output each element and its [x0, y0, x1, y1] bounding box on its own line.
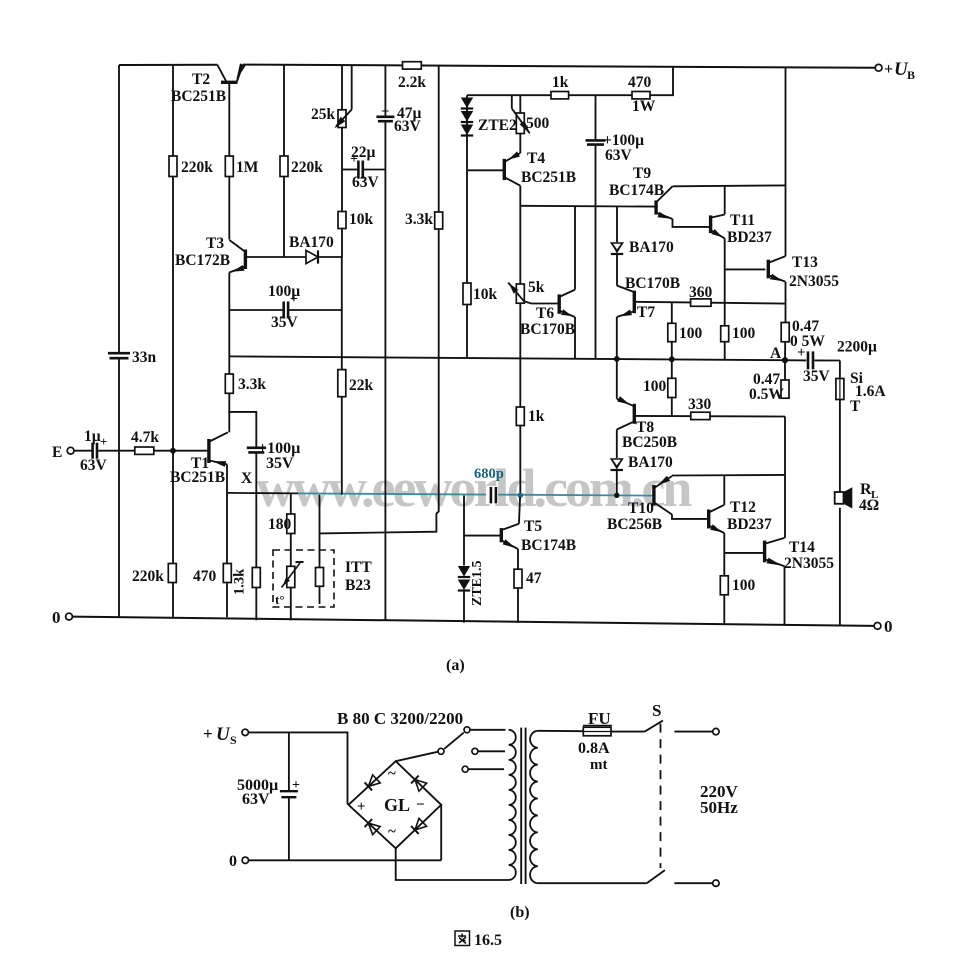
svg-text:A: A: [770, 345, 782, 362]
wire: T1 emitter down to X rail: [226, 464, 228, 493]
junction: 1k mid at X rail: [518, 492, 524, 498]
svg-text:330: 330: [688, 396, 712, 413]
svg-text:100: 100: [643, 378, 667, 395]
ITT B23 dashed module box: [273, 550, 334, 607]
svg-text:63V: 63V: [605, 147, 633, 164]
svg-text:2N3055: 2N3055: [784, 555, 834, 572]
svg-text:100µ: 100µ: [268, 283, 300, 300]
diode chain ZTE1.5: [458, 566, 470, 577]
transistor T13 2N3055: [767, 260, 770, 279]
wire: bottom rail: [72, 617, 874, 626]
svg-text:0: 0: [884, 617, 893, 636]
terminal 0 (bottom right): [874, 623, 881, 630]
svg-text:T12: T12: [730, 499, 756, 516]
resistor 2.2k (in top rail): [403, 62, 422, 69]
transistor T4 BC251B: [503, 159, 506, 180]
wire: psu bottom: [249, 859, 442, 861]
svg-text:3.3k: 3.3k: [405, 211, 433, 228]
junction on input line: [170, 448, 176, 454]
svg-text:BA170: BA170: [629, 239, 674, 256]
transistor T14 2N3055: [763, 541, 766, 563]
transistor T3 BC172B: [244, 250, 247, 270]
svg-text:BA170: BA170: [289, 234, 334, 251]
wire: ITT branch to X rail: [319, 495, 321, 568]
junction: 100 at rail: [669, 356, 675, 362]
capacitor 100u 63V: [595, 95, 597, 140]
wire: bridge right corner down: [440, 805, 442, 861]
resistor 100 (first): [668, 323, 676, 341]
svg-text:1µ: 1µ: [84, 428, 101, 445]
potentiometer 500: [511, 95, 513, 108]
svg-text:500: 500: [526, 115, 550, 132]
svg-text:BD237: BD237: [727, 516, 772, 533]
wire: T9 collector to T11 base: [673, 219, 710, 227]
wire: T12 emitter to T14 base and 100 fourth: [723, 533, 725, 576]
wire: 180 / thermistor branch: [290, 494, 292, 514]
svg-text:T11: T11: [730, 212, 755, 229]
resistor 220k (bottom): [168, 564, 176, 583]
wire: bridge bottom to primary: [396, 848, 509, 880]
svg-text:2.2k: 2.2k: [398, 74, 426, 91]
junction: node A: [782, 357, 788, 363]
bridge rectifier GL: [349, 761, 442, 848]
wire: T10 collector to T12 base: [672, 515, 708, 519]
svg-text:100: 100: [732, 577, 756, 594]
resistor 47: [514, 569, 522, 588]
resistor 470 (emitter): [223, 564, 231, 583]
wire: T10 emitter row: [672, 474, 785, 477]
svg-text:BC172B: BC172B: [175, 252, 230, 269]
svg-text:470: 470: [193, 568, 217, 585]
svg-text:680p: 680p: [474, 466, 504, 482]
capacitor 2200u 35V: [785, 359, 806, 361]
transistor T9 BC174B: [654, 200, 657, 214]
svg-text:T9: T9: [633, 165, 651, 182]
svg-text:0: 0: [229, 853, 237, 870]
wire: T1 collector network: [229, 393, 256, 447]
svg-text:1W: 1W: [632, 98, 656, 115]
svg-text:BC251B: BC251B: [170, 469, 225, 486]
svg-text:BC250B: BC250B: [622, 434, 677, 451]
svg-text:T: T: [850, 398, 861, 415]
terminal E input: [67, 447, 74, 454]
wire: 3.3k top branch with dogleg to X rail: [438, 66, 440, 212]
wire: ZTE2 to 10k second: [466, 170, 468, 283]
junction: BA170 at X rail: [614, 493, 619, 498]
svg-text:BC174B: BC174B: [609, 182, 664, 199]
bridge diode bottom-right: [411, 818, 427, 834]
transistor T12 BD237: [707, 510, 710, 529]
svg-text:33n: 33n: [132, 349, 157, 366]
svg-text:T5: T5: [524, 518, 542, 535]
wire: T8 emitter to BA170 third: [616, 430, 618, 459]
selector switch and taps: [396, 752, 438, 761]
svg-text:~: ~: [388, 824, 396, 840]
wire: T5 collector up to X rail: [519, 497, 520, 524]
switch link dashed: [660, 724, 662, 868]
transformer secondary coil: [530, 731, 538, 883]
svg-text:T6: T6: [536, 305, 554, 322]
wire: secondary top with fuse FU: [538, 730, 584, 732]
svg-text:10k: 10k: [349, 211, 374, 228]
resistor 1.3k: [252, 568, 260, 588]
wire: base line to T1: [154, 450, 208, 452]
resistor 100 (second): [721, 326, 729, 342]
wire: 5k pot chain down to 1k mid: [519, 206, 521, 284]
wire: 1k/470 row: [467, 66, 673, 95]
svg-text:BA170: BA170: [628, 454, 673, 471]
svg-text:220k: 220k: [291, 159, 323, 176]
capacitor 100u 35V (first): [229, 309, 283, 311]
wire: BA170/22k vertical: [341, 257, 343, 370]
svg-text:1k: 1k: [528, 408, 545, 425]
svg-text:0.5W: 0.5W: [749, 386, 784, 403]
resistor 1k (top): [551, 92, 569, 99]
svg-text:1.3k: 1.3k: [232, 568, 248, 595]
wire: T11 emitter down to T13 base and 100 second: [724, 238, 726, 325]
svg-text:−: −: [416, 797, 425, 813]
wire: T5 emitter to 47: [517, 549, 519, 569]
wire: secondary bottom with switch: [538, 882, 647, 884]
transistor T8 BC250B: [633, 404, 636, 424]
svg-text:S: S: [230, 733, 237, 747]
svg-text:S: S: [652, 701, 661, 720]
resistor 360: [691, 299, 711, 306]
terminal +UB: [875, 64, 882, 71]
svg-text:T10: T10: [628, 500, 654, 517]
svg-text:22k: 22k: [349, 377, 374, 394]
thermistor t: [287, 566, 295, 587]
resistor 3.3k (second): [225, 374, 233, 393]
svg-text:25k: 25k: [311, 106, 336, 123]
speaker RL 4ohm: [835, 492, 844, 504]
wire: T12 collector up: [723, 475, 725, 505]
svg-text:T14: T14: [789, 539, 815, 556]
wire: T8 base row with 330: [635, 415, 785, 418]
caption figure 16.5: [455, 931, 470, 946]
wire: output vertical: [784, 417, 786, 538]
svg-text:63V: 63V: [394, 118, 422, 135]
svg-text:X: X: [241, 470, 253, 487]
wire: T7 emitter to rail: [616, 317, 618, 359]
svg-text:~: ~: [388, 766, 396, 782]
bridge diode bottom-left: [365, 819, 381, 835]
svg-text:(a): (a): [446, 657, 465, 674]
resistor 10k (second): [463, 283, 471, 305]
svg-text:+: +: [797, 345, 806, 361]
capacitor 100u 35V (second): [247, 446, 266, 449]
wire: T8 collector to rail: [616, 359, 618, 399]
svg-text:1k: 1k: [552, 74, 569, 91]
fuse Si 1.6A T: [839, 361, 841, 379]
transistor T11 BD237: [709, 215, 712, 233]
junction: T7 emitter at rail: [614, 356, 620, 362]
wire: right vertical from top rail: [785, 68, 787, 257]
transformer primary coil: [509, 730, 516, 880]
capacitor 1u 63V: [74, 450, 92, 452]
svg-text:+: +: [884, 61, 893, 78]
resistor 1k (middle): [516, 407, 524, 426]
transformer core: [520, 728, 522, 884]
svg-text:10k: 10k: [473, 286, 498, 303]
svg-text:+: +: [203, 724, 213, 743]
resistor 330: [691, 412, 710, 419]
transistor T10 BC256B: [652, 485, 655, 506]
wire: T2 base to 1M and T3: [228, 84, 230, 240]
svg-text:100: 100: [732, 325, 756, 342]
resistor 0.47 0.5W (second): [784, 360, 786, 380]
svg-text:ITT: ITT: [345, 559, 372, 576]
svg-text:T7: T7: [637, 304, 655, 321]
wire: T9 emitter row: [673, 184, 786, 187]
wire: mid feedback rail (node A rail): [229, 356, 785, 360]
transistor T7 BC170B: [633, 291, 636, 314]
svg-text:470: 470: [628, 74, 652, 91]
transistor T6 BC170B: [558, 294, 561, 313]
switch S top: [645, 721, 663, 732]
svg-text:50Hz: 50Hz: [700, 798, 738, 817]
svg-text:+: +: [292, 778, 300, 793]
svg-text:T2: T2: [192, 71, 210, 88]
svg-text:ZTE2: ZTE2: [478, 117, 517, 134]
resistor 0.47 0.5W (first): [781, 323, 789, 342]
svg-text:47: 47: [526, 570, 542, 587]
svg-text:4Ω: 4Ω: [859, 497, 879, 514]
svg-text:t°: t°: [275, 592, 285, 607]
resistor 1M: [225, 156, 233, 177]
svg-text:U: U: [216, 724, 231, 745]
wire: X-node rail (teal under watermark): [227, 492, 300, 495]
svg-text:220k: 220k: [181, 159, 213, 176]
capacitor 22u 63V: [342, 169, 358, 171]
svg-text:3.3k: 3.3k: [238, 376, 266, 393]
diode BA170 (third): [611, 459, 624, 470]
svg-text:16.5: 16.5: [474, 932, 502, 949]
svg-text:BC170B: BC170B: [520, 321, 575, 338]
wire: top supply rail: [119, 64, 217, 66]
wire: 100 first branch: [671, 303, 673, 323]
svg-text:BC256B: BC256B: [607, 516, 662, 533]
svg-text:T3: T3: [206, 235, 224, 252]
transistor T5 BC174B: [500, 528, 503, 542]
svg-text:1M: 1M: [236, 159, 259, 176]
svg-text:22µ: 22µ: [351, 144, 376, 161]
svg-text:63V: 63V: [80, 457, 108, 474]
svg-text:63V: 63V: [352, 174, 380, 191]
svg-text:2200µ: 2200µ: [837, 339, 877, 356]
svg-text:5k: 5k: [528, 279, 545, 296]
wire: left vertical with 33n: [118, 65, 120, 352]
svg-text:35V: 35V: [803, 368, 831, 385]
svg-text:360: 360: [689, 284, 713, 301]
wire: T6 collector up: [574, 206, 576, 290]
resistor 22k: [338, 370, 346, 397]
diode BA170 (first): [306, 250, 318, 263]
svg-text:BC174B: BC174B: [521, 537, 576, 554]
svg-text:BC170B: BC170B: [625, 275, 680, 292]
svg-text:B: B: [907, 68, 915, 82]
svg-text:+: +: [357, 799, 366, 815]
svg-text:E: E: [52, 444, 62, 461]
svg-text:100: 100: [679, 325, 703, 342]
wire: T4 collector row to T9: [519, 186, 521, 206]
capacitor 5000u 63V: [288, 732, 290, 790]
wire: T3 base line to BA170: [247, 256, 342, 258]
svg-text:0.8A: 0.8A: [578, 740, 610, 757]
capacitor 47u 63V: [376, 116, 394, 119]
wire: T5 base to ZTE1.5: [463, 496, 465, 536]
resistor 100 (fourth): [720, 576, 728, 595]
svg-text:BC251B: BC251B: [171, 88, 226, 105]
svg-text:T4: T4: [527, 150, 545, 167]
wire: 220k branch vertical: [172, 65, 174, 617]
resistor 10k (first): [338, 212, 346, 229]
svg-text:180: 180: [268, 516, 292, 533]
svg-text:mt: mt: [590, 757, 608, 773]
resistor 4.7k: [135, 447, 154, 454]
capacitor 33n: [108, 352, 130, 355]
resistor 220k (top): [169, 156, 177, 177]
svg-text:0 5W: 0 5W: [790, 333, 825, 350]
wire: 220k second branch: [283, 65, 285, 257]
wire: 1.3k branch: [255, 493, 257, 568]
transistor T1 BC251B: [207, 439, 210, 463]
svg-text:BD237: BD237: [727, 229, 772, 246]
diode BA170 (second): [616, 207, 618, 243]
svg-text:2N3055: 2N3055: [789, 273, 839, 290]
svg-text:B 80 C 3200/2200: B 80 C 3200/2200: [337, 709, 463, 728]
resistor 220k (third): [280, 156, 288, 177]
svg-text:(b): (b): [510, 904, 530, 921]
wire: T3 emitter vertical: [228, 273, 230, 375]
bridge diode top-left: [365, 775, 381, 791]
wire: 500 pot to T4 emitter: [519, 134, 521, 154]
svg-text:+: +: [381, 104, 390, 120]
svg-text:+: +: [100, 434, 107, 449]
wire: 25k pot branch: [341, 65, 343, 110]
svg-text:35V: 35V: [266, 455, 294, 472]
resistor 180: [287, 514, 295, 534]
svg-text:GL: GL: [384, 795, 410, 815]
wire: +Us feed: [248, 732, 348, 804]
diode chain ZTE2 (3 diodes): [466, 95, 468, 170]
wire: 470 branch below X: [226, 493, 228, 564]
wire: to node A: [784, 342, 786, 360]
svg-text:0: 0: [52, 608, 61, 627]
svg-text:BC251B: BC251B: [521, 169, 576, 186]
capacitor 680p: [486, 486, 498, 504]
svg-text:4.7k: 4.7k: [131, 429, 159, 446]
svg-text:63V: 63V: [242, 791, 270, 808]
potentiometer 5k: [516, 284, 524, 303]
wire: T7 base row with 360: [635, 302, 785, 304]
resistor 470 1W: [632, 92, 650, 99]
wire: 100 third branch: [671, 359, 673, 378]
resistor 3.3k (top): [435, 212, 443, 229]
terminal 0 (bottom left): [66, 613, 73, 620]
wire: T11 collector up: [724, 186, 726, 214]
potentiometer 25k: [338, 110, 346, 128]
transistor T2 BC251B: [217, 65, 226, 82]
resistor in ITT module: [316, 568, 324, 587]
wire: T6 emitter to rail: [574, 317, 576, 359]
svg-text:B23: B23: [345, 577, 371, 594]
bridge diode top-right: [411, 776, 427, 792]
svg-text:220k: 220k: [132, 568, 164, 585]
wire: 47u branch: [384, 65, 386, 116]
resistor 100 (third): [668, 378, 676, 397]
svg-text:35V: 35V: [271, 314, 299, 331]
svg-text:ZTE1.5: ZTE1.5: [470, 560, 485, 606]
svg-text:T13: T13: [792, 254, 818, 271]
